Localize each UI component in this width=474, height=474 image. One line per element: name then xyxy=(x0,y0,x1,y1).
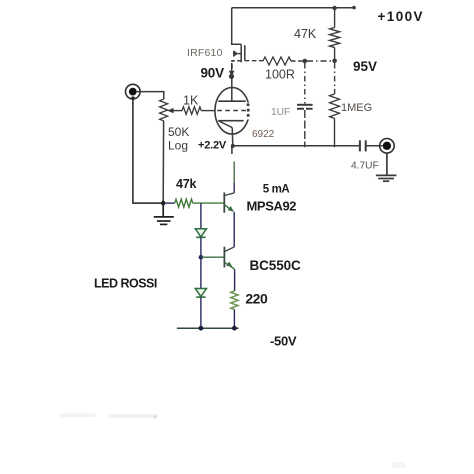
node 90V junction with arrow xyxy=(229,71,235,77)
wire node to BC550C base xyxy=(201,256,225,258)
resistor R 220 green xyxy=(231,291,238,310)
svg-text:Log: Log xyxy=(168,139,188,153)
tube grid dots xyxy=(247,103,252,120)
svg-text:47k: 47k xyxy=(176,177,197,191)
svg-text:LED ROSSI: LED ROSSI xyxy=(94,276,157,290)
svg-text:220: 220 xyxy=(245,291,268,307)
svg-text:100R: 100R xyxy=(265,68,295,82)
svg-text:1K: 1K xyxy=(183,93,199,107)
wire 1MEG bottom xyxy=(334,118,336,147)
svg-text:+100V: +100V xyxy=(378,9,424,24)
transistor Q1 MPSA92 xyxy=(223,192,225,212)
svg-text:6922: 6922 xyxy=(252,129,275,140)
node rail end terminal xyxy=(352,6,356,10)
svg-text:50K: 50K xyxy=(168,125,189,139)
wire 1K to grid xyxy=(201,110,215,112)
svg-text:95V: 95V xyxy=(353,59,377,74)
resistor R 1MEG xyxy=(330,94,340,118)
svg-text:1MEG: 1MEG xyxy=(341,102,372,114)
wire node to D2 xyxy=(200,257,202,288)
wire D2 to rail xyxy=(200,297,202,328)
wire plate lead to 90V xyxy=(231,76,233,101)
svg-text:MPSA92: MPSA92 xyxy=(247,199,297,214)
wire diode chain drop xyxy=(200,203,202,229)
wire D1 to node xyxy=(200,238,202,258)
wire 1UF bottom dashed xyxy=(304,110,306,147)
svg-text:IRF610: IRF610 xyxy=(187,47,223,59)
ground input xyxy=(154,203,174,224)
svg-text:-50V: -50V xyxy=(270,334,297,349)
wire 220 to rail xyxy=(233,310,235,329)
wire 95V node to 1MEG dash-dot xyxy=(334,63,336,94)
wire top +100V rail xyxy=(232,7,354,9)
wire BC550C emitter down xyxy=(234,269,236,291)
wire MPSA92 emitter to BC550C collector xyxy=(233,212,235,247)
wire cathode lead down xyxy=(231,127,234,145)
svg-text:90V: 90V xyxy=(201,66,225,81)
resistor R 100R xyxy=(263,57,291,65)
resistor R 47k green xyxy=(175,199,193,207)
diode D2 xyxy=(195,289,206,297)
wire 47k to base xyxy=(193,202,225,204)
wire gate dashed lead xyxy=(245,60,263,62)
capacitor C 4.7UF xyxy=(360,140,366,151)
resistor R 47K xyxy=(330,8,340,59)
wire junction to 47k resistor xyxy=(165,202,174,204)
node 47K-1MEG junction 95V xyxy=(332,59,337,64)
tube plate xyxy=(218,100,245,102)
wire output line xyxy=(233,145,360,147)
node gate RC junction xyxy=(303,59,308,64)
wire MPSA92 collector up xyxy=(231,146,233,154)
tube V1 6922 envelope xyxy=(215,88,249,135)
transistor U1 IRF610 MOSFET xyxy=(232,8,245,75)
diode D1 xyxy=(195,229,206,237)
wire 100R to node dash-dot xyxy=(291,60,303,62)
resistor R 1K xyxy=(182,107,201,115)
wire jack to pot top xyxy=(137,92,164,100)
svg-text:+2.2V: +2.2V xyxy=(198,139,227,151)
svg-text:4.7UF: 4.7UF xyxy=(351,161,379,172)
wire jack sleeve down xyxy=(133,99,163,203)
pot wiper arrow xyxy=(170,110,183,112)
tube cathode hook xyxy=(219,121,232,127)
node rail-220 junction xyxy=(232,326,237,331)
node diode-base junction xyxy=(199,255,204,260)
output jack J2 xyxy=(380,139,395,154)
node rail-diode junction xyxy=(199,326,204,331)
svg-text:5 mA: 5 mA xyxy=(263,184,290,196)
wire node to 47K bottom dash-dot xyxy=(307,60,333,62)
svg-text:47K: 47K xyxy=(294,27,317,41)
capacitor C 1UF xyxy=(297,105,313,109)
svg-text:1UF: 1UF xyxy=(271,107,290,118)
transistor Q2 BC550C xyxy=(223,247,225,268)
wire node to 1UF dash-dot xyxy=(304,63,306,104)
node input ground junction xyxy=(161,201,166,206)
potentiometer VR1 50K xyxy=(160,99,168,121)
tube cathode xyxy=(218,120,243,122)
node rail-47K junction xyxy=(332,6,336,10)
smudge faint xyxy=(60,414,96,418)
wire bottom -50V rail xyxy=(177,327,239,329)
node cathode-output junction xyxy=(231,144,235,148)
ground output xyxy=(376,153,397,181)
tube grid dashed xyxy=(217,110,246,112)
svg-text:BC550C: BC550C xyxy=(250,258,302,273)
input jack J1 xyxy=(126,84,141,99)
